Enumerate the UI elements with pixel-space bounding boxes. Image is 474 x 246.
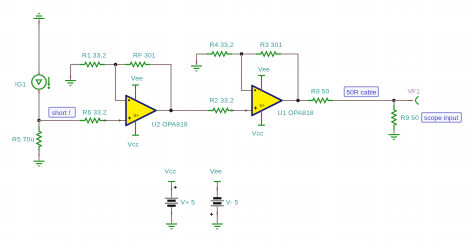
- pin mark battery V1 plus: [171, 187, 173, 191]
- resistor R8: [308, 98, 334, 102]
- label scope input: [422, 113, 462, 123]
- resistor R6: [80, 118, 106, 122]
- pin mark R5 bottom: [38, 153, 40, 156]
- plus sign battery V2: [210, 213, 213, 216]
- wire U1 output to R8: [284, 100, 308, 102]
- wire RF right and down to U2 output node: [151, 65, 171, 111]
- ground below battery V2: [212, 224, 223, 229]
- svg-text:Vcc: Vcc: [252, 131, 264, 138]
- wire R1 ground drop: [70, 65, 72, 81]
- svg-text:scope input: scope input: [424, 115, 458, 122]
- wire node A to R5: [38, 121, 40, 127]
- resistor R3: [256, 52, 282, 56]
- svg-text:R1 33,2: R1 33,2: [82, 53, 106, 60]
- wire R1 to node B: [105, 64, 125, 66]
- wire node F to probe VF1: [394, 100, 413, 102]
- pin mark battery V2 minus: [216, 187, 218, 191]
- pin arrow R2 right: [231, 109, 234, 111]
- svg-text:R6 33,2: R6 33,2: [83, 110, 107, 117]
- voltage probe VF1: [416, 96, 419, 104]
- op-amp U1: [252, 86, 284, 116]
- svg-text:R2 33,2: R2 33,2: [210, 98, 234, 105]
- node B feedback junction U2: [114, 63, 117, 66]
- node A junction below IG1: [37, 119, 40, 122]
- wire U2 output to R2: [158, 110, 208, 112]
- svg-text:Vcc: Vcc: [165, 169, 177, 176]
- battery V2 V- 5: [211, 198, 224, 206]
- svg-text:VF1: VF1: [408, 89, 421, 96]
- power node Vcc below U2: [132, 134, 139, 136]
- wire IG1 bottom to node A: [38, 89, 40, 120]
- svg-text:Vcc: Vcc: [128, 142, 140, 149]
- pin mark battery V1 minus: [171, 212, 173, 216]
- resistor R9: [392, 105, 396, 131]
- svg-text:50R cable: 50R cable: [346, 90, 376, 97]
- ground below R5: [34, 161, 45, 166]
- wire battery V2 to ground: [216, 207, 218, 224]
- svg-text:IG1: IG1: [15, 82, 26, 89]
- label short !: [49, 107, 76, 117]
- svg-text:V- 5: V- 5: [226, 200, 239, 207]
- wire node F to R9: [393, 101, 395, 108]
- ground (flipped, above IG1): [34, 14, 45, 19]
- svg-text:short !: short !: [52, 110, 71, 117]
- pin arrow U1 noninverting input: [245, 109, 248, 111]
- svg-text:V+ 5: V+ 5: [181, 200, 196, 207]
- resistor R1: [80, 62, 106, 66]
- svg-text:Vee: Vee: [210, 169, 222, 176]
- battery V1 V+ 5: [165, 198, 178, 206]
- pin mark IG1 top: [38, 21, 40, 75]
- node C U2 output junction: [169, 109, 172, 112]
- wire node B down to U2 inverting input: [116, 65, 128, 101]
- ground below R4: [191, 66, 202, 71]
- wire R8 to node F: [333, 100, 394, 102]
- resistor R2: [208, 108, 234, 112]
- pin arrow U2 noninverting input: [119, 119, 122, 121]
- power node Vee above V2: [214, 181, 221, 183]
- wire node D down to U1 inverting input: [242, 54, 254, 91]
- label 50R cable: [344, 87, 378, 97]
- wire R3 right and down to U1 output node: [281, 54, 298, 101]
- svg-text:R4 33,2: R4 33,2: [210, 42, 234, 49]
- svg-text:R8 50: R8 50: [311, 89, 330, 96]
- wire node A to R6: [39, 120, 80, 122]
- node D feedback junction U1: [240, 52, 243, 55]
- pin wire Vcc to U1: [261, 111, 263, 125]
- pin mark probe VF1: [409, 100, 412, 102]
- plus sign battery V1: [174, 186, 177, 189]
- node F output junction: [392, 99, 395, 102]
- wire R5 to ground: [38, 152, 40, 161]
- power node Vee above U1: [258, 75, 265, 77]
- pin mark R1 ground: [70, 75, 72, 79]
- svg-text:R9 50: R9 50: [401, 115, 420, 122]
- wire Vcc node to battery V1: [171, 182, 173, 197]
- wire ground corner to R4: [197, 53, 208, 55]
- wire R9 to ground: [393, 130, 395, 134]
- resistor R5: [37, 126, 41, 152]
- svg-text:U2 OPA818: U2 OPA818: [152, 122, 188, 129]
- svg-text:R3 301: R3 301: [260, 42, 282, 49]
- svg-text:Vee: Vee: [258, 67, 270, 74]
- op-amp U2: [126, 96, 158, 126]
- pin mark R4 ground: [196, 61, 198, 65]
- svg-text:RF 301: RF 301: [133, 53, 156, 60]
- wire R6 to U2 noninverting input: [105, 120, 127, 122]
- wire ground to IG1 top: [38, 19, 40, 75]
- pin mark battery V2 plus: [216, 212, 218, 216]
- wire ground corner to R1: [71, 64, 80, 66]
- ground below battery V1: [166, 224, 177, 229]
- wire battery V1 to ground: [171, 207, 173, 224]
- pin wire Vcc to U2: [135, 121, 137, 135]
- wire Vee node to battery V2: [216, 182, 218, 197]
- resistor R4: [207, 52, 233, 56]
- pin wire Vee to U1: [261, 76, 263, 90]
- wire R2 to U1 noninverting input: [234, 110, 254, 112]
- ground below R1: [65, 81, 76, 86]
- svg-text:R5 70u: R5 70u: [12, 137, 34, 144]
- svg-text:U1 OPA818: U1 OPA818: [278, 110, 314, 117]
- pin arrow R6 right: [104, 119, 107, 121]
- node E U1 output junction: [296, 99, 299, 102]
- ground below R9: [389, 135, 400, 140]
- power node Vcc below U1: [258, 124, 265, 126]
- wire R4 to node D: [232, 53, 256, 55]
- current source IG1: [32, 75, 51, 89]
- svg-text:Vee: Vee: [131, 76, 143, 83]
- power node Vcc above V1: [168, 181, 175, 183]
- power node Vee above U2: [132, 84, 139, 86]
- resistor RF: [125, 62, 151, 66]
- wire R4 ground drop: [196, 54, 198, 65]
- pin mark IG1 bottom: [38, 90, 40, 94]
- pin wire Vee to U2: [135, 86, 137, 100]
